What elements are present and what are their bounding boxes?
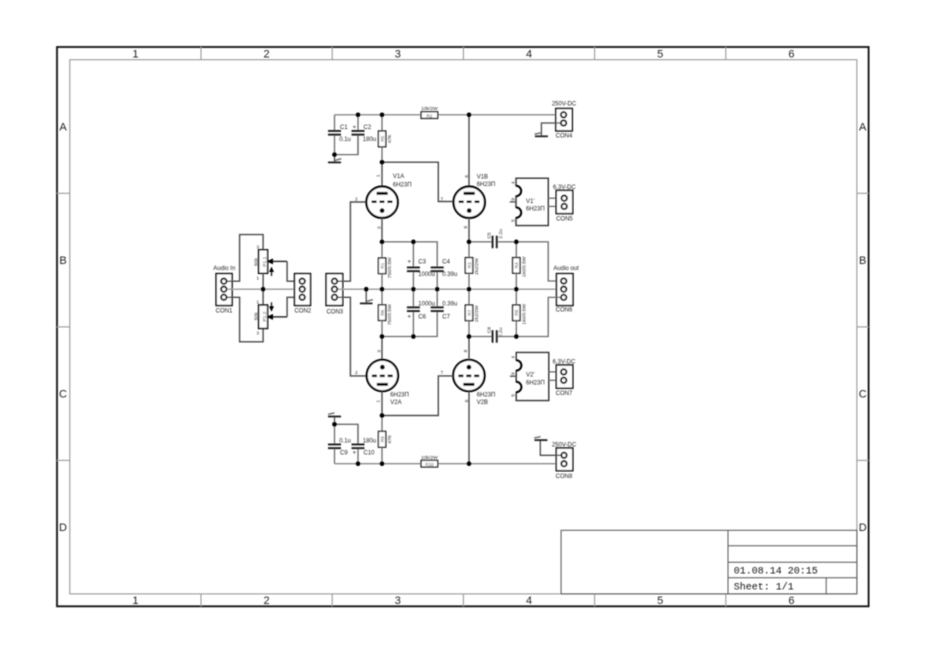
- svg-text:2: 2: [355, 196, 358, 202]
- resistor R8 1k0/0.5W (bottom): [513, 289, 528, 336]
- svg-text:2k2/2W: 2k2/2W: [474, 258, 480, 275]
- wire V2A anode pin 1: [375, 391, 382, 415]
- wire C5 to output corner: [498, 242, 561, 281]
- tube heater V2' 6H23P: [510, 352, 549, 400]
- connector CON7 6.3V-DC: [553, 360, 576, 397]
- svg-text:D: D: [859, 522, 867, 534]
- connector CON6 (Audio out): [553, 266, 579, 313]
- svg-text:7: 7: [441, 370, 444, 376]
- svg-text:V2': V2': [526, 373, 534, 379]
- wire V1B cathode pin 8: [463, 218, 469, 242]
- svg-text:6Н23П: 6Н23П: [393, 182, 412, 188]
- wire V2B anode pin 6: [464, 391, 470, 464]
- svg-text:8: 8: [463, 349, 469, 352]
- junction 1k0 top at rail: [514, 287, 519, 292]
- svg-text:Audio out: Audio out: [553, 266, 579, 272]
- svg-text:2: 2: [355, 370, 358, 376]
- TITLE BLOCK: [561, 530, 857, 594]
- svg-text:CON4: CON4: [556, 133, 573, 139]
- tube V2B 6H23P: [453, 360, 495, 406]
- wire V1A anode to V1B grid jog: [382, 162, 453, 202]
- svg-text:Sheet: 1/1: Sheet: 1/1: [734, 582, 794, 594]
- svg-text:6Н23П: 6Н23П: [526, 381, 545, 387]
- svg-text:250V-DC: 250V-DC: [552, 102, 577, 108]
- junction V2B anode at B- rail: [467, 461, 472, 466]
- wire P1.2 top to common rail: [262, 289, 264, 305]
- wire B- rail right segment to CON8: [438, 463, 561, 465]
- wire common rail CON3 pin2 to CON6 pin2: [338, 288, 561, 290]
- resistor R1 750/0.5W (top): [378, 242, 393, 289]
- resistor R7 2k2/2W (bottom): [465, 289, 480, 336]
- wire P1.1 bottom to common rail: [262, 273, 264, 289]
- svg-text:V1A: V1A: [393, 174, 404, 180]
- svg-text:50k: 50k: [253, 258, 259, 266]
- svg-text:CON8: CON8: [556, 474, 573, 480]
- svg-text:3: 3: [395, 595, 401, 607]
- svg-text:A: A: [59, 122, 67, 134]
- junction V2A anode node: [380, 413, 385, 418]
- svg-text:7: 7: [441, 197, 444, 203]
- wire P1.2 wiper to CON2 pin3: [287, 297, 299, 317]
- svg-text:2.2u: 2.2u: [498, 327, 504, 337]
- connector CON4 250V-DC: [552, 102, 577, 140]
- wire V1B cathode to C5: [469, 241, 492, 243]
- potentiometer P1.2 50k: [253, 300, 268, 336]
- wire C8 to output corner: [498, 297, 561, 336]
- svg-text:4: 4: [511, 356, 517, 359]
- svg-text:1k0/0.5W: 1k0/0.5W: [522, 256, 528, 277]
- junction V2A cathode: [380, 334, 385, 339]
- capacitor C8 2.2u: [487, 327, 504, 343]
- svg-text:V2B: V2B: [477, 400, 488, 406]
- junction V2B cathode: [467, 334, 472, 339]
- junction P1 at rail: [261, 287, 266, 292]
- svg-text:180u: 180u: [363, 137, 376, 143]
- capacitor C5 2.2u: [487, 229, 504, 248]
- junction V1B anode at B+ rail: [467, 112, 472, 117]
- svg-text:6Н23П: 6Н23П: [477, 182, 496, 188]
- svg-text:D: D: [59, 522, 67, 534]
- svg-text:47K: 47K: [387, 134, 393, 143]
- tube V1A 6H23P: [366, 174, 411, 218]
- svg-text:V1B: V1B: [477, 174, 488, 180]
- wire P1.1 wiper to CON2 pin1: [287, 261, 299, 281]
- svg-text:CON3: CON3: [326, 309, 343, 315]
- P1.2 wiper arrow: [267, 314, 288, 320]
- svg-text:01.08.14 20:15: 01.08.14 20:15: [734, 567, 818, 578]
- svg-text:P1.2: P1.2: [262, 311, 268, 321]
- capacitor C2 180u: [352, 115, 377, 155]
- svg-text:47K: 47K: [387, 434, 393, 443]
- svg-text:6Н23П: 6Н23П: [390, 392, 409, 398]
- ground above C9: [328, 413, 341, 424]
- svg-text:R7: R7: [467, 309, 472, 315]
- svg-text:R2: R2: [426, 113, 432, 118]
- wire B- rail left segment: [335, 463, 422, 465]
- svg-text:6.3V-DC: 6.3V-DC: [553, 360, 576, 366]
- svg-text:8: 8: [463, 226, 469, 229]
- svg-text:6Н23П: 6Н23П: [477, 392, 496, 398]
- svg-text:5: 5: [510, 219, 516, 222]
- wire V1B anode pin 6: [464, 115, 470, 187]
- junction C3 at rail: [411, 287, 416, 292]
- wire V1A cathode node: [382, 242, 437, 267]
- wire B+ rail left segment: [335, 114, 422, 116]
- svg-text:0.39u: 0.39u: [442, 301, 457, 307]
- wire V2B cathode to C8: [469, 336, 492, 338]
- wire CON4 pin2 to ground: [541, 123, 560, 135]
- svg-text:C4: C4: [442, 260, 450, 266]
- svg-text:1: 1: [375, 174, 381, 177]
- capacitor C7 0.39u: [431, 289, 458, 320]
- svg-text:5: 5: [511, 394, 517, 397]
- svg-text:C: C: [859, 389, 867, 401]
- capacitor C4 0.39u: [431, 260, 458, 290]
- ground below C1: [328, 155, 341, 163]
- label V1A grid pin 2: [355, 196, 358, 202]
- potentiometer P1.1 50k: [253, 245, 268, 281]
- svg-text:C2: C2: [364, 125, 372, 131]
- svg-text:V2A: V2A: [390, 400, 401, 406]
- svg-text:R5: R5: [380, 136, 385, 142]
- svg-text:1: 1: [132, 49, 138, 61]
- svg-text:750/0.5W: 750/0.5W: [387, 304, 393, 325]
- svg-text:0.1u: 0.1u: [339, 438, 351, 444]
- label V2A grid pin 2: [355, 370, 358, 376]
- svg-text:R1: R1: [380, 262, 385, 268]
- junction V1B cathode: [467, 240, 472, 245]
- tube V1B 6H23P: [454, 174, 496, 218]
- svg-text:CON1: CON1: [216, 309, 233, 315]
- svg-text:R4: R4: [514, 262, 519, 268]
- resistor R5 47K (top): [378, 115, 393, 162]
- junction C4 at rail: [435, 287, 440, 292]
- svg-text:R10: R10: [425, 462, 434, 467]
- wire V1A cathode pin 3: [376, 218, 382, 242]
- svg-text:+: +: [353, 125, 357, 131]
- svg-text:B: B: [59, 255, 66, 267]
- wire C1-C2 bottom jog: [335, 136, 359, 155]
- wire CON3 pin1 to V1A grid: [338, 202, 366, 281]
- svg-text:1k0/0.5W: 1k0/0.5W: [522, 304, 528, 325]
- junction output resistor top: [514, 240, 519, 245]
- svg-text:A: A: [859, 122, 867, 134]
- wire input rail CON1 pin2 to CON2 pin2: [227, 288, 299, 290]
- capacitor C1 0.1u: [328, 115, 351, 155]
- junction 47K bottom node: [380, 160, 385, 165]
- svg-text:V1': V1': [526, 199, 534, 205]
- svg-text:2: 2: [264, 595, 270, 607]
- svg-text:CON2: CON2: [294, 309, 311, 315]
- junction C6 bottom: [411, 334, 416, 339]
- junction 47K at B- rail: [380, 461, 385, 466]
- capacitor C3 1000u: [407, 242, 435, 289]
- ground at common rail: [360, 289, 373, 303]
- wire V2A cathode pin 3: [377, 337, 383, 360]
- svg-text:+: +: [408, 260, 412, 266]
- P1.2 adjust arrow down: [269, 302, 274, 311]
- resistor R10 10k/2W (bottom): [421, 455, 438, 467]
- svg-text:6: 6: [464, 175, 470, 178]
- svg-text:6: 6: [464, 399, 470, 402]
- wire V2' to CON7 pin1: [549, 371, 561, 373]
- svg-text:5: 5: [657, 595, 663, 607]
- svg-text:R6: R6: [380, 309, 385, 315]
- svg-text:R9: R9: [380, 436, 385, 442]
- svg-text:CON5: CON5: [556, 216, 573, 222]
- connector CON2: [294, 274, 311, 315]
- svg-text:2.2u: 2.2u: [498, 229, 504, 239]
- P1.1 adjust arrow up: [269, 267, 274, 276]
- svg-text:CON6: CON6: [556, 308, 573, 314]
- svg-text:0.1u: 0.1u: [339, 137, 351, 143]
- svg-text:C3: C3: [418, 260, 426, 266]
- capacitor C9 0.1u: [328, 424, 351, 463]
- svg-text:1000u: 1000u: [418, 272, 435, 278]
- svg-text:C8: C8: [487, 327, 493, 334]
- svg-text:6.3V-DC: 6.3V-DC: [553, 185, 576, 191]
- svg-text:C1: C1: [340, 125, 348, 131]
- svg-text:4: 4: [526, 595, 532, 607]
- junction 2k2 top at rail: [467, 287, 472, 292]
- wire CON8 pin1 to ground: [540, 441, 561, 455]
- junction 750 top at rail: [380, 287, 385, 292]
- junction C2 at B+ rail: [356, 112, 361, 117]
- svg-text:3: 3: [377, 350, 383, 353]
- SCHEMATIC: [213, 102, 579, 480]
- tube heater V1' 6H23P: [510, 178, 549, 225]
- junction C9 top: [332, 422, 337, 427]
- svg-text:5: 5: [657, 49, 663, 61]
- svg-text:4: 4: [526, 49, 532, 61]
- junction 47K at B+ rail: [380, 112, 385, 117]
- junction C1 bottom: [332, 152, 337, 157]
- capacitor C6 1000u: [407, 289, 435, 336]
- svg-text:C10: C10: [364, 451, 376, 457]
- svg-text:9: 9: [510, 198, 516, 201]
- wire V2A cathode node: [382, 312, 437, 337]
- connector CON1 (Audio In): [213, 266, 235, 314]
- svg-text:4: 4: [510, 181, 516, 184]
- wire V2A anode to V2B grid jog: [382, 370, 453, 415]
- svg-text:CON7: CON7: [556, 391, 573, 397]
- ground at CON4: [535, 133, 548, 136]
- resistor R2 10k/2W (top): [421, 106, 438, 118]
- wire V2' to CON7 pin2: [549, 379, 561, 381]
- svg-text:6: 6: [788, 595, 794, 607]
- svg-text:6Н23П: 6Н23П: [526, 206, 545, 212]
- resistor R9 47K (bottom): [378, 416, 393, 464]
- svg-text:B: B: [859, 255, 866, 267]
- svg-text:C: C: [59, 389, 67, 401]
- svg-text:C5: C5: [487, 232, 493, 239]
- wire CON1 pin1 to P1.1 top: [227, 235, 263, 282]
- wire C9-C10 top jog: [335, 424, 359, 443]
- svg-text:1: 1: [375, 400, 381, 403]
- svg-text:3: 3: [376, 226, 382, 229]
- svg-text:R8: R8: [514, 309, 519, 315]
- svg-text:C7: C7: [442, 314, 450, 320]
- P1.1 wiper arrow: [267, 258, 288, 264]
- svg-text:1: 1: [132, 595, 138, 607]
- svg-text:250V-DC: 250V-DC: [552, 442, 577, 448]
- svg-text:2k2/2W: 2k2/2W: [474, 305, 480, 322]
- junction C10 at B- rail: [356, 461, 361, 466]
- connector CON5 6.3V-DC: [553, 185, 576, 222]
- svg-text:C9: C9: [340, 451, 348, 457]
- wire CON3 pin3 to V2A grid: [338, 297, 367, 376]
- svg-text:6: 6: [788, 49, 794, 61]
- svg-text:2: 2: [264, 49, 270, 61]
- svg-text:50k: 50k: [253, 312, 259, 320]
- wire V2B cathode pin 8: [463, 337, 469, 360]
- svg-text:180u: 180u: [363, 438, 376, 444]
- ground at CON8: [534, 437, 547, 441]
- svg-text:9: 9: [511, 372, 517, 375]
- wire V1' to CON5 pin2: [548, 205, 561, 207]
- svg-text:+: +: [408, 314, 412, 320]
- connector CON8 250V-DC: [552, 442, 577, 480]
- connector CON3: [326, 274, 344, 316]
- svg-text:+: +: [353, 451, 357, 457]
- resistor R4 1k0/0.5W (top): [513, 242, 528, 289]
- wire B+ rail right segment to CON4: [438, 114, 561, 116]
- svg-text:R3: R3: [467, 262, 472, 268]
- svg-text:0.39u: 0.39u: [442, 272, 457, 278]
- resistor R6 750/0.5W (bottom): [378, 289, 393, 336]
- svg-text:3: 3: [395, 49, 401, 61]
- svg-text:10k/2W: 10k/2W: [421, 455, 438, 461]
- tube V2A 6H23P: [367, 360, 409, 406]
- junction rail gnd tap: [364, 287, 369, 292]
- junction output resistor bottom: [514, 334, 519, 339]
- resistor R3 2k2/2W (top): [465, 242, 480, 289]
- capacitor C10 180u: [352, 424, 377, 463]
- wire V1A anode pin 1: [375, 162, 382, 186]
- svg-text:750/0.5W: 750/0.5W: [387, 257, 393, 278]
- junction V1A cathode: [380, 240, 385, 245]
- svg-text:C6: C6: [418, 314, 426, 320]
- wire CON1 pin3 to P1.2 bottom: [227, 297, 263, 342]
- svg-text:10k/2W: 10k/2W: [421, 106, 438, 112]
- svg-text:Audio In: Audio In: [213, 266, 235, 272]
- wire V1' to CON5 pin1: [548, 197, 561, 199]
- junction C3 top: [411, 240, 416, 245]
